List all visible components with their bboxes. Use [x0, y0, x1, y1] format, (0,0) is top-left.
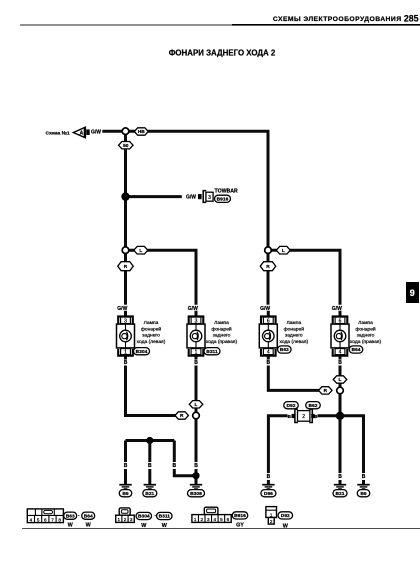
right ground middle drop: [339, 416, 342, 473]
wire out of backup lamp left (lamp1) bottom: [124, 356, 127, 360]
right ground bus left arm: [318, 414, 341, 417]
ground point B9 (left): [119, 485, 131, 489]
svg-text:L: L: [139, 248, 142, 254]
legend connector B63/B64 pin face: [27, 509, 63, 523]
svg-text:B63: B63: [66, 513, 75, 519]
svg-text:заднего: заднего: [357, 334, 375, 339]
svg-text:3: 3: [207, 517, 210, 522]
wire code badge 50: [119, 142, 134, 149]
svg-text:B63: B63: [280, 347, 289, 353]
ground point B21 (left): [144, 485, 156, 489]
wire code badge R (right pair): [260, 262, 276, 271]
svg-text:5: 5: [37, 517, 40, 522]
svg-text:заднего: заднего: [213, 334, 231, 339]
connector badge B304 of backup lamp left (lamp1): [134, 348, 150, 355]
svg-text:5: 5: [220, 517, 223, 522]
lamp2 ground wire to junction: [195, 419, 198, 462]
left ground bus horizontal: [126, 439, 175, 442]
svg-text:B: B: [267, 474, 271, 480]
svg-text:B304: B304: [136, 349, 148, 355]
ground drop to lamp2 line: [173, 441, 176, 463]
wire code badge R (left pair): [118, 262, 134, 271]
svg-text:заднего: заднего: [285, 334, 303, 339]
right ground bus right arm: [340, 416, 364, 473]
lamp3 ground wire down and right: [268, 366, 322, 391]
connector badge B64 of backup lamp right rear (lamp4): [349, 346, 363, 353]
wire out of backup lamp right rear (lamp4) bottom: [339, 356, 342, 360]
legend badge B63: [64, 512, 77, 519]
svg-text:6: 6: [227, 517, 230, 522]
svg-text:B: B: [338, 360, 342, 366]
svg-text:B: B: [124, 463, 128, 469]
svg-text:хода (правая): хода (правая): [350, 339, 382, 345]
svg-text:D92: D92: [281, 513, 290, 519]
svg-text:B304: B304: [138, 514, 150, 520]
svg-text:R: R: [324, 388, 328, 394]
svg-text:Схема №1: Схема №1: [46, 130, 70, 136]
svg-text:B62: B62: [309, 403, 318, 409]
svg-text:B9: B9: [360, 491, 367, 497]
left main vertical wire V1: [124, 131, 127, 252]
label text for backup lamp left rear (lamp3): [279, 320, 308, 345]
connector circle C2 (left pair): [122, 247, 129, 254]
legend badge B916: [232, 512, 248, 519]
header rule: [20, 24, 420, 26]
svg-text:B: B: [194, 463, 198, 469]
wire code badge HB: [134, 128, 148, 135]
connector badge B916 (towbar): [215, 195, 231, 202]
svg-text:B311: B311: [159, 514, 171, 520]
junction dot lamp2 ground: [192, 472, 199, 479]
svg-text:СХЕМЫ ЭЛЕКТРООБОРУДОВАНИЯ: СХЕМЫ ЭЛЕКТРООБОРУДОВАНИЯ: [273, 16, 402, 23]
connector circle C3 (right pair): [265, 247, 272, 254]
svg-text:1: 1: [270, 512, 273, 517]
svg-text:4: 4: [214, 517, 217, 522]
wire code badge L (right pair): [276, 246, 290, 254]
wire code badge L (left ground pair): [189, 401, 203, 408]
ground point B9 (right) badge B9: [357, 490, 370, 497]
svg-text:R: R: [266, 264, 270, 270]
svg-text:3: 3: [208, 195, 211, 201]
backup lamp left rear (lamp3) (B63) lamp symbol: [259, 316, 277, 355]
svg-text:Лампа: Лампа: [144, 320, 159, 326]
svg-text:G/W: G/W: [91, 130, 101, 136]
svg-text:A: A: [80, 131, 84, 137]
svg-text:B9: B9: [122, 491, 129, 497]
svg-text:B: B: [266, 360, 270, 366]
backup lamp left (lamp1) (B304) lamp symbol: [117, 316, 135, 355]
feed wire from triangle A to junction, top horizontal: [102, 131, 268, 250]
svg-text:2: 2: [124, 517, 127, 522]
svg-text:9: 9: [410, 288, 415, 298]
legend connector B916 pin face: [192, 507, 231, 522]
wire D96 to ground: [267, 480, 270, 484]
svg-text:D92: D92: [287, 403, 296, 409]
svg-text:2: 2: [200, 517, 203, 522]
svg-text:Лампа: Лампа: [286, 320, 301, 326]
connector junction circle C1 (top feed): [122, 128, 129, 135]
svg-text:1: 1: [118, 517, 121, 522]
backup lamp right rear (lamp4) (B64) lamp symbol: [331, 316, 349, 355]
connector circle C4 (left grounds): [193, 412, 200, 419]
connector badge B63 of backup lamp left rear (lamp3): [278, 346, 292, 353]
wire code badge R (right ground pair): [319, 387, 333, 394]
svg-text:TOWBAR: TOWBAR: [215, 189, 238, 195]
lamp4 ground wire down: [339, 366, 342, 388]
svg-text:хода (правая): хода (правая): [206, 339, 238, 345]
svg-text:хода (левая): хода (левая): [137, 339, 166, 345]
wire code badge L (left pair): [134, 246, 148, 254]
svg-text:L: L: [195, 402, 198, 408]
svg-text:B308: B308: [190, 491, 202, 497]
svg-text:B: B: [148, 463, 152, 469]
svg-text:8: 8: [58, 517, 61, 522]
ground point B21 (right) badge B21: [333, 490, 347, 497]
svg-text:4: 4: [30, 517, 33, 522]
lamp2 ground line to ground point: [195, 469, 198, 484]
svg-text:фонарей: фонарей: [284, 325, 305, 332]
svg-text:GY: GY: [236, 522, 244, 528]
svg-text:B: B: [124, 360, 128, 366]
ground drop B21 left: [148, 441, 151, 463]
svg-text:фонарей: фонарей: [141, 325, 162, 332]
wire out of backup lamp left rear (lamp3) bottom: [267, 356, 270, 360]
wire into backup lamp left rear (lamp3) top: [267, 311, 270, 317]
svg-text:D96: D96: [264, 491, 273, 497]
svg-text:B64: B64: [352, 347, 361, 353]
svg-text:R: R: [124, 264, 128, 270]
wire code badge L (right ground pair): [333, 376, 347, 383]
svg-text:G/W: G/W: [186, 195, 196, 201]
svg-text:B: B: [172, 463, 176, 469]
svg-text:B64: B64: [84, 513, 93, 519]
label text for backup lamp right (lamp2): [206, 320, 238, 345]
ground point B21 (right): [334, 485, 346, 489]
svg-text:B: B: [194, 360, 198, 366]
ground drop B9 left: [124, 441, 127, 463]
chapter tab 9: [406, 282, 419, 303]
svg-text:L: L: [339, 377, 342, 383]
legend connector D92 pin face: [266, 507, 277, 524]
wire into backup lamp right rear (lamp4) top: [339, 311, 342, 317]
wire B9 right to ground: [362, 480, 365, 484]
lamp4 ground to junction dot: [339, 394, 342, 416]
connector badge B311 of backup lamp right (lamp2): [204, 348, 220, 355]
ground point B308 badge B308: [188, 490, 205, 497]
junction dot on V1 (towbar tap): [121, 192, 129, 200]
svg-text:2: 2: [270, 519, 273, 524]
legend badge D92: [278, 512, 293, 519]
ground point D96 badge D96: [261, 490, 276, 497]
svg-text:B21: B21: [145, 491, 154, 497]
svg-text:заднего: заднего: [142, 334, 160, 339]
label text for backup lamp left (lamp1): [137, 320, 166, 345]
branch wire to lamp4: [272, 250, 341, 305]
connector badge B62: [306, 402, 321, 409]
junction dot right ground bus: [336, 412, 344, 420]
svg-text:3: 3: [130, 517, 133, 522]
towbar branch wire: [126, 195, 182, 198]
legend badge B311: [157, 512, 173, 519]
reference triangle A (from scheme 1): [73, 127, 89, 138]
connector badge D92: [284, 402, 299, 409]
ground point B21 (left) badge B21: [143, 490, 157, 497]
svg-text:50: 50: [123, 143, 129, 149]
svg-text:R: R: [180, 413, 184, 419]
svg-text:ФОНАРИ ЗАДНЕГО ХОДА 2: ФОНАРИ ЗАДНЕГО ХОДА 2: [169, 49, 276, 58]
svg-text:Лампа: Лампа: [358, 320, 373, 326]
backup lamp right (lamp2) (B311) lamp symbol: [187, 316, 205, 355]
legend badge B304: [136, 512, 152, 519]
svg-text:B916: B916: [234, 513, 246, 519]
wire into backup lamp right (lamp2) top: [195, 311, 198, 317]
wire into backup lamp left (lamp1) top: [124, 311, 127, 317]
wire code badge R (left ground pair): [175, 412, 189, 419]
svg-text:L: L: [282, 248, 285, 254]
V1 wire to left connector circle: [124, 252, 127, 305]
ground point B308: [190, 485, 202, 489]
inline connector D92/B62 pin 2: [292, 409, 315, 422]
connector circle C5 (right grounds): [337, 387, 344, 394]
svg-text:B: B: [338, 474, 342, 480]
svg-text:хода (левая): хода (левая): [279, 339, 308, 345]
svg-text:B311: B311: [206, 349, 218, 355]
label text for backup lamp right rear (lamp4): [350, 320, 382, 345]
legend connector B304/B311 pin face: [116, 508, 135, 523]
svg-text:фонарей: фонарей: [355, 325, 376, 332]
wire B21 right to ground: [339, 480, 342, 484]
legend bottom rule: [22, 528, 420, 530]
junction dot on left ground bus: [146, 437, 153, 444]
wire left drop3 to lamp2 ground line: [174, 469, 196, 476]
svg-text:B: B: [362, 474, 366, 480]
svg-text:Лампа: Лампа: [214, 320, 229, 326]
svg-text:HB: HB: [138, 129, 145, 135]
svg-text:фонарей: фонарей: [211, 325, 232, 332]
svg-text:1: 1: [194, 517, 197, 522]
svg-text:285: 285: [404, 14, 419, 24]
right main vertical V3 to circle: [267, 252, 270, 305]
legend badge B64: [82, 512, 95, 519]
svg-text:B21: B21: [336, 491, 345, 497]
wire B9 left to ground: [124, 469, 127, 484]
branch wire to lamp2: [129, 250, 196, 305]
ground point D96: [262, 485, 274, 489]
wire out of backup lamp right (lamp2) bottom: [195, 356, 198, 360]
svg-text:W: W: [141, 523, 147, 529]
wire B21 left to ground: [148, 469, 151, 484]
svg-text:2: 2: [302, 414, 305, 420]
svg-text:B916: B916: [217, 197, 229, 203]
svg-text:7: 7: [51, 517, 54, 522]
lamp1 ground wire down and right: [126, 366, 179, 416]
svg-text:6: 6: [44, 517, 47, 522]
towbar connector pin 3: [198, 191, 213, 203]
ground point B9 (left) badge B9: [119, 490, 132, 497]
lamp2 ground wire down: [195, 366, 198, 413]
right ground bus to D96 drop: [268, 416, 287, 473]
svg-text:W: W: [162, 523, 168, 529]
ground point B9 (right): [357, 485, 369, 489]
